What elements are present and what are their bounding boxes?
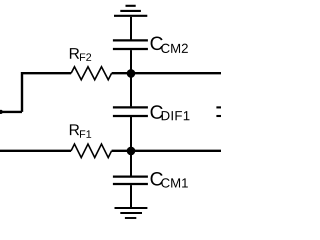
label CDIF1	[151, 105, 190, 120]
node: junction RF2/CCM2/CDIF1	[127, 69, 136, 78]
wire: top node to CDIF1	[130, 73, 132, 106]
wire: bottom node to CCM1	[130, 151, 132, 176]
capacitor CCM2	[113, 40, 148, 49]
capacitor (partial, right edge)	[216, 107, 221, 116]
wire: CCM2 to top node	[130, 50, 132, 73]
capacitor CCM1	[113, 177, 148, 184]
wire: bottom rail to right edge	[112, 150, 221, 152]
ground (top, inverted)	[114, 6, 147, 16]
wire: left input stub vertical + top rail left segment	[22, 73, 71, 112]
label CCM1	[151, 172, 188, 188]
resistor RF2	[71, 67, 112, 80]
wire: CDIF1 to bottom node	[130, 117, 132, 151]
wire: CCM1 to bottom ground	[130, 185, 132, 208]
label CCM2	[151, 36, 188, 53]
wire: bottom rail left segment	[0, 150, 71, 152]
wire: left input stub horizontal	[0, 111, 22, 113]
ground (bottom)	[115, 208, 148, 218]
label RF2	[70, 48, 91, 61]
resistor RF1	[71, 144, 112, 158]
capacitor CDIF1	[113, 107, 148, 116]
wire: top rail to right edge	[112, 72, 221, 74]
node: input terminal end	[0, 110, 3, 114]
wire: top ground to CCM2	[130, 17, 132, 40]
node: junction RF1/CDIF1/CCM1	[127, 147, 136, 156]
label RF1	[70, 124, 91, 137]
